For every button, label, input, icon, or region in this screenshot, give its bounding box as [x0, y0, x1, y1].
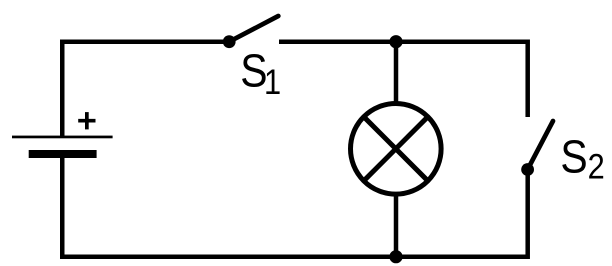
svg-text:S2: S2 [560, 131, 604, 186]
battery B1 [12, 136, 113, 158]
node A (top junction) [389, 35, 402, 48]
wire: node A down to lamp top [394, 42, 399, 103]
wire: S2 pivot down to bottom-right corner to node B [396, 170, 528, 257]
switch S1 [223, 16, 278, 48]
wire: node B to bottom-left corner up to battery negative plate [62, 154, 396, 257]
lamp L1 [351, 104, 442, 195]
node B (bottom junction) [389, 250, 402, 263]
wire: battery positive plate up and right to S1 pivot [62, 42, 229, 137]
wire: lamp bottom down to node B [394, 194, 399, 257]
wire: node A to top-right corner down to S2 fixed contact [396, 42, 528, 117]
battery polarity label + [78, 112, 95, 129]
wire: S1 fixed contact to node A [279, 39, 396, 44]
svg-text:S1: S1 [240, 45, 281, 101]
switch S2 [521, 121, 553, 176]
